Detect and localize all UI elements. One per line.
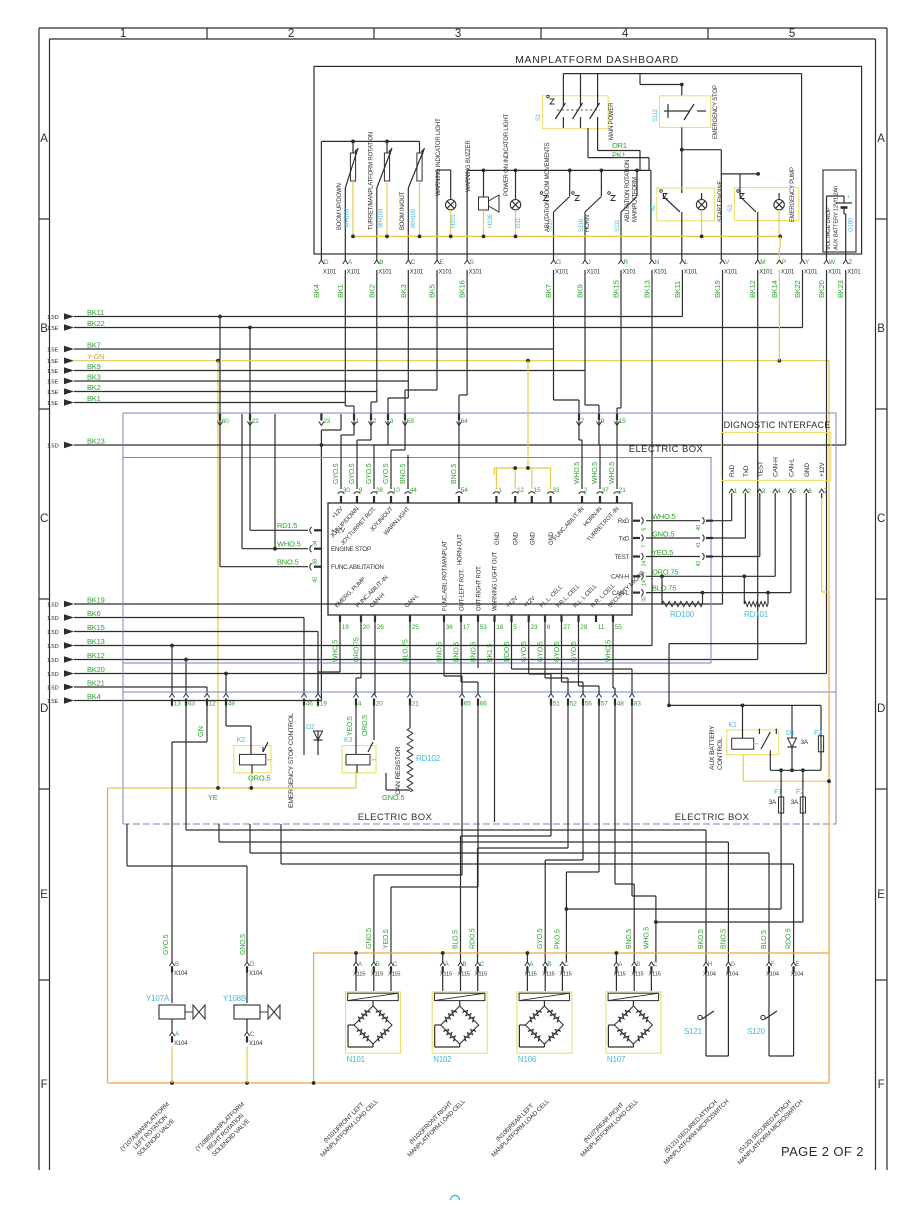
label YEO.5: [652, 548, 673, 557]
label BK2: [87, 383, 101, 392]
svg-text:G11: G11: [516, 217, 522, 228]
block pin 18: [493, 615, 503, 631]
connector X101 pin G (BK7): [551, 259, 569, 276]
tag BK1: [47, 399, 74, 407]
svg-text:BK21: BK21: [87, 679, 105, 688]
svg-text:K1: K1: [729, 722, 737, 729]
svg-text:18: 18: [496, 624, 503, 631]
wire label BK2: [367, 284, 376, 298]
svg-text:X101: X101: [781, 270, 795, 276]
svg-text:S3: S3: [728, 204, 734, 212]
svg-text:1.5D: 1.5D: [47, 644, 58, 650]
svg-text:X115: X115: [524, 972, 536, 978]
load cell N107 pins: [613, 951, 660, 991]
wire cell C8: [632, 706, 656, 962]
svg-text:32: 32: [642, 596, 648, 602]
diag pin 3: [757, 488, 766, 498]
connector X101 pin Z (BK23): [843, 259, 861, 276]
svg-text:R: R: [624, 259, 629, 266]
svg-text:GYO.5: GYO.5: [571, 641, 578, 662]
wire diag +12V: [822, 498, 829, 1083]
svg-text:65: 65: [464, 701, 471, 708]
svg-text:G: G: [556, 259, 561, 266]
svg-text:X104: X104: [725, 972, 739, 978]
svg-text:15: 15: [534, 487, 541, 494]
svg-text:AUX BATTERY 12V/1.2Ah: AUX BATTERY 12V/1.2Ah: [834, 186, 840, 250]
svg-text:BK11: BK11: [87, 308, 104, 317]
svg-text:2: 2: [288, 28, 294, 40]
connector X101 pin P (BK14): [777, 259, 795, 276]
connector pin r2 21: [407, 694, 419, 708]
svg-text:GYO.5: GYO.5: [538, 641, 545, 662]
label BK7: [87, 341, 101, 350]
wire BK15 col: [617, 270, 621, 414]
block left pin bars: [310, 527, 321, 583]
connector pin r2 49: [223, 694, 235, 708]
junction Y-GN: [216, 359, 781, 363]
relay K1: [727, 705, 779, 770]
svg-text:13: 13: [174, 701, 181, 708]
wire cell C5: [545, 706, 583, 962]
wire K1 yellow: [743, 755, 831, 784]
svg-text:BK19: BK19: [87, 596, 105, 605]
label ABLITATION BOOM MOVEMENTS: [545, 142, 551, 232]
svg-text:BNO.5: BNO.5: [400, 464, 407, 484]
switch S3: [721, 172, 799, 260]
svg-text:GNO.5: GNO.5: [382, 793, 404, 802]
svg-text:RDO.5: RDO.5: [504, 641, 511, 662]
wire label WHO.5 55: [606, 640, 613, 662]
wire K1 top rail: [667, 704, 792, 708]
connector X101 pin W (BK20): [824, 259, 842, 276]
svg-text:BLO.75: BLO.75: [652, 584, 676, 593]
svg-text:X104: X104: [174, 971, 188, 977]
svg-text:BK19: BK19: [713, 280, 722, 298]
svg-text:WHO.5: WHO.5: [574, 462, 581, 484]
svg-text:B: B: [463, 962, 467, 968]
wire label BK19: [713, 280, 722, 298]
svg-text:41: 41: [696, 542, 702, 548]
svg-text:A: A: [618, 962, 622, 968]
wire cell C6: [566, 706, 599, 962]
wire 64-54: [458, 421, 460, 489]
svg-text:WARNING INDICATOR LIGHT: WARNING INDICATOR LIGHT: [436, 118, 442, 196]
lamp H101: [437, 170, 456, 260]
label F1: [768, 789, 782, 806]
fuse F3: [792, 705, 824, 770]
label ORO.5 K3: [362, 715, 369, 736]
label BK15: [87, 623, 105, 632]
svg-text:9: 9: [359, 487, 363, 494]
svg-text:G100: G100: [849, 217, 855, 232]
svg-text:BK4: BK4: [87, 692, 101, 701]
tag BK6: [47, 614, 74, 622]
relay K3: [342, 706, 376, 773]
svg-text:S1: S1: [536, 113, 542, 121]
svg-text:WH105: WH105: [411, 208, 417, 228]
svg-text:63: 63: [188, 701, 195, 708]
svg-text:57: 57: [601, 701, 608, 708]
wire nest L3: [250, 824, 769, 962]
svg-text:PAGE 2 OF 2: PAGE 2 OF 2: [781, 1144, 864, 1159]
svg-text:X101: X101: [347, 270, 361, 276]
svg-text:X115: X115: [388, 972, 400, 978]
svg-text:D1: D1: [786, 730, 795, 737]
wire label WHO.5: [643, 927, 650, 949]
diag pin 2: [743, 488, 752, 498]
svg-text:X101: X101: [623, 270, 637, 276]
svg-text:X104: X104: [249, 971, 263, 977]
wire label BK7: [544, 284, 553, 298]
block pin 10: [388, 487, 401, 503]
svg-text:BK15: BK15: [612, 280, 621, 298]
svg-text:X115: X115: [475, 972, 487, 978]
svg-text:BK20: BK20: [87, 665, 105, 674]
connector X101 pin C (BK3): [406, 259, 424, 276]
wire label BK15: [612, 280, 621, 298]
svg-text:OUT-RIGHT ROT.: OUT-RIGHT ROT.: [477, 565, 483, 611]
connector pin 2: [368, 414, 376, 426]
svg-text:A: A: [175, 1032, 179, 1038]
svg-text:YEO.5: YEO.5: [652, 548, 673, 557]
wire label GYO.5: [333, 463, 340, 484]
connector X101 pin B (BK2): [374, 259, 392, 276]
svg-text:FUNC.ABILITATION: FUNC.ABILITATION: [331, 564, 384, 571]
svg-text:CAN-L: CAN-L: [612, 591, 630, 597]
svg-text:BOOM IN/OUT: BOOM IN/OUT: [400, 191, 406, 230]
dashboard box: [314, 66, 862, 254]
svg-text:RDO.5: RDO.5: [470, 928, 477, 949]
label Y-GN: [87, 352, 104, 361]
svg-text:ABLITATION BOOM MOVEMENTS: ABLITATION BOOM MOVEMENTS: [545, 142, 551, 232]
svg-text:GYO.5: GYO.5: [554, 641, 561, 662]
wire BK19: [74, 270, 723, 604]
svg-text:53: 53: [480, 624, 487, 631]
svg-text:BNO.5: BNO.5: [720, 929, 727, 949]
svg-text:A: A: [358, 962, 362, 968]
wire label GYO.5 8: [538, 641, 545, 662]
wire BK16: [459, 270, 467, 414]
battery G100: [823, 170, 856, 260]
svg-text:8: 8: [547, 624, 551, 631]
svg-text:BLO.75: BLO.75: [403, 639, 410, 662]
wire 18 col: [494, 622, 496, 822]
connector X101 pin E (BK5): [434, 259, 452, 276]
label K2: [237, 737, 245, 744]
svg-text:X115: X115: [371, 972, 383, 978]
svg-text:CAN-H: CAN-H: [611, 575, 629, 581]
wire 25-21: [409, 622, 411, 694]
label RD100: [670, 610, 695, 619]
svg-text:MANPLATFORM DASHBOARD: MANPLATFORM DASHBOARD: [515, 54, 679, 66]
wire cell C2: [391, 706, 478, 962]
wire 1-30: [341, 421, 354, 489]
label ELECTRIC BOX 1: [629, 444, 704, 455]
diag pin labels: [729, 457, 826, 477]
svg-text:GYO.5: GYO.5: [349, 463, 356, 484]
label BK9: [87, 362, 101, 371]
label G11: [516, 217, 522, 228]
wire 3-28: [374, 421, 388, 489]
svg-text:X115: X115: [613, 972, 625, 978]
wire label GYO.5 29: [571, 641, 578, 662]
wire 26-20: [374, 622, 376, 694]
diag pin 5: [788, 488, 797, 498]
label (S121) switch: [657, 1093, 730, 1166]
svg-text:5: 5: [793, 488, 797, 495]
diode D2: [314, 731, 323, 755]
connector pin r2 19: [315, 694, 327, 708]
svg-text:FUNC.ABIL.ROT.MANPLAT: FUNC.ABIL.ROT.MANPLAT: [443, 540, 449, 611]
wire label BLO.5: [453, 930, 460, 949]
svg-text:30: 30: [343, 487, 350, 494]
svg-text:B: B: [175, 962, 179, 968]
label BK21: [87, 679, 105, 688]
wire label BK5: [428, 284, 437, 298]
svg-text:GND: GND: [804, 463, 811, 477]
connector X101 pin A (BK1): [343, 259, 361, 276]
svg-text:K3: K3: [344, 737, 352, 744]
wire Y-GN drop: [217, 361, 219, 788]
wire label BK1: [336, 284, 345, 298]
svg-text:X101: X101: [828, 270, 842, 276]
svg-text:BK11: BK11: [673, 281, 682, 298]
load cell N106 pins: [524, 951, 571, 991]
svg-text:WARNING BUZZER: WARNING BUZZER: [466, 139, 472, 192]
wire BK20: [74, 270, 827, 694]
wire 44 col: [407, 455, 409, 489]
svg-text:P: P: [782, 259, 786, 266]
svg-text:27: 27: [563, 624, 570, 631]
label BK19: [87, 596, 105, 605]
wire BK2: [74, 270, 377, 414]
tag BK15: [47, 628, 74, 636]
label S110: [548, 218, 554, 232]
svg-text:X101: X101: [654, 270, 668, 276]
switch S112 EMERGENCY STOP: [660, 96, 711, 128]
wire BK14 drop: [778, 270, 780, 361]
svg-text:X104: X104: [766, 972, 780, 978]
svg-text:X115: X115: [648, 972, 660, 978]
svg-text:RxD: RxD: [729, 464, 736, 477]
wire BK9: [74, 270, 585, 371]
wire S112 to S2/V: [680, 127, 721, 260]
svg-text:ORO.5: ORO.5: [362, 715, 369, 736]
label YEO.5 K3: [347, 716, 354, 736]
svg-text:BK23: BK23: [87, 437, 105, 446]
svg-text:RDO.5: RDO.5: [786, 928, 793, 949]
svg-text:BNO.5: BNO.5: [437, 642, 444, 662]
row ticks: [39, 219, 887, 980]
label battery: [826, 186, 840, 250]
block pin 53: [477, 615, 487, 631]
load cell N106 body: [517, 992, 572, 1053]
svg-text:WH103: WH103: [345, 208, 351, 228]
svg-text:X104: X104: [791, 972, 805, 978]
svg-text:X101: X101: [410, 270, 424, 276]
label (N102) cell: [401, 1092, 468, 1159]
connector pin 3: [385, 414, 393, 426]
connector X101 pin S (BK16): [465, 259, 483, 276]
label (Y108B) valve: [194, 1101, 257, 1164]
label TURRET/MANPLATFORM ROTATION: [368, 132, 374, 230]
label S1: [536, 113, 542, 121]
svg-text:X115: X115: [542, 972, 554, 978]
svg-text:BK23: BK23: [836, 280, 845, 298]
svg-text:1.5E: 1.5E: [47, 347, 58, 353]
label MAIN POWER: [609, 102, 615, 140]
svg-text:BK2: BK2: [367, 284, 376, 298]
svg-text:F1: F1: [774, 789, 782, 796]
svg-text:MAINPLATFORM: MAINPLATFORM: [633, 177, 639, 222]
svg-text:VOLTAGE DROP: VOLTAGE DROP: [826, 207, 832, 250]
wire BK23: [74, 270, 846, 445]
label BK20: [87, 665, 105, 674]
svg-text:A: A: [445, 962, 449, 968]
label WHO.5: [652, 512, 676, 521]
svg-text:6: 6: [642, 528, 648, 531]
label POWER ON INDICATOR LIGHT: [504, 113, 510, 196]
potentiometer WH105: [408, 141, 424, 260]
label GNO.5: [652, 530, 674, 539]
wire BK7: [74, 270, 554, 349]
svg-text:YEO.5: YEO.5: [383, 929, 390, 949]
resistor RD101: [744, 576, 768, 606]
svg-text:WHO.5: WHO.5: [592, 462, 599, 484]
block pin 9: [354, 487, 363, 503]
svg-text:BK12: BK12: [748, 280, 757, 298]
connector pin r2 65: [459, 694, 471, 708]
wire label GYO.5: [366, 463, 373, 484]
connector pin 23: [319, 414, 331, 426]
svg-text:1.5D: 1.5D: [47, 602, 58, 608]
wire pot supply bus: [321, 141, 419, 260]
lamp G11: [510, 170, 520, 236]
connector pin 64: [456, 414, 468, 426]
wire label BNO.5: [451, 464, 458, 484]
label H101: [451, 214, 457, 228]
svg-text:X115: X115: [353, 972, 365, 978]
svg-text:F3: F3: [814, 730, 822, 737]
svg-text:BK1.5: BK1.5: [487, 644, 494, 662]
label BK4: [87, 692, 101, 701]
connector X101 pin M (BK12): [755, 259, 773, 276]
switch S116: [572, 170, 602, 260]
svg-text:X101: X101: [469, 270, 483, 276]
wire label PKO.5: [554, 929, 561, 949]
wire 23-51: [529, 622, 551, 694]
switch S1 MAIN POWER: [542, 74, 608, 151]
logo fragment: [451, 1196, 460, 1205]
svg-text:M: M: [760, 259, 765, 266]
svg-text:BK2: BK2: [87, 383, 101, 392]
svg-text:D: D: [324, 259, 329, 266]
svg-text:GNO.5: GNO.5: [240, 934, 247, 955]
svg-text:19: 19: [320, 701, 327, 708]
block pin 2: [579, 487, 588, 503]
label CAN RESISTOR: [395, 746, 402, 795]
wire BK7 jog: [554, 349, 580, 414]
connector pin 7: [576, 414, 584, 426]
microswitch S120 symbol: [761, 966, 794, 1056]
label ORO.5 K2: [248, 774, 270, 783]
wire cell C3: [461, 706, 552, 962]
svg-text:BK9: BK9: [576, 284, 585, 298]
svg-text:X104: X104: [174, 1041, 188, 1047]
svg-text:33: 33: [552, 487, 559, 494]
svg-text:59: 59: [407, 418, 414, 425]
svg-text:BK15: BK15: [87, 623, 105, 632]
svg-text:26: 26: [377, 624, 384, 631]
svg-text:E: E: [40, 889, 48, 901]
svg-text:60: 60: [222, 418, 229, 425]
svg-text:4: 4: [358, 701, 362, 708]
svg-text:AUX BATTERY: AUX BATTERY: [709, 725, 716, 770]
resistor RD100: [662, 576, 703, 606]
wire GYO.5 valve: [171, 742, 173, 962]
svg-text:RD1.5: RD1.5: [277, 521, 297, 530]
wire BK1: [74, 270, 354, 414]
svg-text:Y-GN: Y-GN: [87, 352, 104, 361]
block pin 23: [528, 615, 538, 631]
label BK13: [87, 637, 105, 646]
svg-text:ENGINE STOP: ENGINE STOP: [331, 546, 371, 553]
wire CAN-L: [633, 498, 791, 602]
label S121: [684, 1027, 703, 1036]
wire BK3: [74, 270, 408, 414]
row letters: [40, 133, 885, 1091]
wire PK1: [588, 128, 649, 170]
lamp EMERGENCY PUMP: [774, 193, 784, 236]
label GNO.5: [382, 793, 404, 802]
label (N107) cell: [574, 1092, 641, 1159]
tag BK2: [47, 388, 74, 396]
label GN: [196, 726, 205, 737]
svg-text:WHO.5: WHO.5: [277, 539, 301, 548]
wire yellow GND spread: [494, 361, 550, 489]
label S2: [651, 204, 657, 212]
svg-text:BK1: BK1: [336, 284, 345, 298]
svg-text:1.5D: 1.5D: [47, 630, 58, 636]
label (N106) cell: [485, 1092, 552, 1159]
connector pin r2 12: [204, 694, 216, 708]
wire label RDO.5: [786, 928, 793, 949]
wire 5-83: [512, 622, 633, 694]
svg-text:HORN: HORN: [585, 215, 591, 232]
tag BK3: [47, 378, 74, 386]
connector X101 pin V (BK19): [720, 259, 738, 276]
relay K2: [234, 726, 272, 773]
svg-text:38: 38: [313, 559, 319, 565]
svg-text:52: 52: [570, 701, 577, 708]
svg-text:7: 7: [581, 418, 585, 425]
wire 7-2: [579, 421, 582, 489]
svg-text:BOOM UP/DOWN: BOOM UP/DOWN: [337, 183, 343, 230]
svg-text:42: 42: [696, 561, 702, 567]
svg-text:3: 3: [455, 28, 461, 40]
svg-text:N107: N107: [607, 1055, 626, 1064]
svg-text:N: N: [655, 259, 660, 266]
block pin 15: [528, 487, 541, 503]
dashboard title: [515, 54, 679, 66]
svg-text:J: J: [588, 259, 591, 266]
label ORO.75: [652, 568, 678, 577]
junction bus: [170, 1081, 315, 1085]
lamp START ENGINE: [696, 193, 706, 236]
wire nest L1: [186, 730, 706, 962]
svg-text:5: 5: [513, 624, 517, 631]
svg-text:WH104: WH104: [379, 208, 385, 228]
